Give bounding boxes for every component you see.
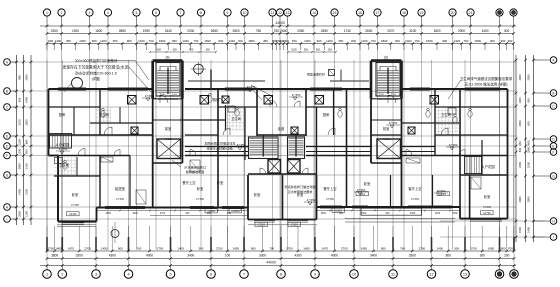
svg-text:C24: C24 <box>441 192 446 196</box>
left dimension chains <box>11 55 33 225</box>
svg-text:1500: 1500 <box>518 227 522 233</box>
svg-text:44000: 44000 <box>266 261 276 265</box>
svg-text:1: 1 <box>46 11 48 15</box>
svg-text:900: 900 <box>316 49 321 52</box>
svg-text:1400: 1400 <box>410 212 416 215</box>
svg-text:47.550: 47.550 <box>145 94 154 98</box>
svg-text:加阳台雨水管做法详见: 加阳台雨水管做法详见 <box>205 141 236 146</box>
svg-text:1400: 1400 <box>55 39 62 43</box>
shaft S2a <box>268 160 281 174</box>
svg-text:C2115: C2115 <box>207 209 215 213</box>
svg-text:防水砂浆封堵C20-600-1.5: 防水砂浆封堵C20-600-1.5 <box>75 71 117 76</box>
elevator E3 <box>377 139 401 159</box>
svg-text:1740: 1740 <box>344 29 351 33</box>
svg-text:1470: 1470 <box>68 246 75 250</box>
svg-text:900: 900 <box>48 39 53 43</box>
svg-text:47.550: 47.550 <box>292 93 301 97</box>
bathroom tile hatch <box>54 105 460 176</box>
right dimension chains <box>515 55 550 242</box>
svg-text:卫生间: 卫生间 <box>231 116 241 121</box>
stair S3 <box>376 63 400 97</box>
svg-text:1450: 1450 <box>488 246 495 250</box>
svg-text:卧室: 卧室 <box>254 192 261 197</box>
svg-text:47.550: 47.550 <box>196 197 204 201</box>
svg-text:900: 900 <box>501 246 506 250</box>
svg-text:1800: 1800 <box>381 39 388 43</box>
svg-text:C2115: C2115 <box>231 209 239 213</box>
svg-text:300: 300 <box>504 29 510 33</box>
svg-text:300: 300 <box>454 246 459 250</box>
svg-text:10: 10 <box>352 273 356 277</box>
svg-text:起居室: 起居室 <box>115 186 126 191</box>
svg-text:1020: 1020 <box>405 39 412 43</box>
svg-text:15: 15 <box>333 11 337 15</box>
svg-text:I: I <box>7 217 8 221</box>
svg-text:1200: 1200 <box>326 39 333 43</box>
svg-text:1400: 1400 <box>177 246 184 250</box>
svg-text:47.550: 47.550 <box>411 197 419 201</box>
svg-text:2900: 2900 <box>518 74 522 80</box>
svg-text:3300: 3300 <box>259 254 266 258</box>
svg-text:450: 450 <box>292 39 297 43</box>
svg-text:1800: 1800 <box>433 29 440 33</box>
svg-text:C2115: C2115 <box>334 209 342 213</box>
svg-text:3400: 3400 <box>370 254 377 258</box>
svg-text:7: 7 <box>243 273 245 277</box>
svg-text:2850: 2850 <box>18 211 22 217</box>
svg-text:3: 3 <box>95 273 97 277</box>
svg-text:10: 10 <box>243 11 247 15</box>
detail circle top-left <box>72 78 83 89</box>
svg-text:900: 900 <box>92 39 97 43</box>
svg-text:1500: 1500 <box>426 39 433 43</box>
svg-text:2900: 2900 <box>458 29 465 33</box>
top grid bubbles <box>43 9 517 16</box>
svg-text:1500: 1500 <box>204 39 211 43</box>
svg-text:卧室: 卧室 <box>197 186 204 191</box>
svg-text:900: 900 <box>218 39 223 43</box>
svg-text:餐厅上空: 餐厅上空 <box>323 186 337 191</box>
svg-text:47.550: 47.550 <box>483 205 491 209</box>
svg-text:900: 900 <box>317 39 322 43</box>
svg-text:8: 8 <box>280 273 282 277</box>
left grid bubbles <box>4 59 11 223</box>
svg-text:2700: 2700 <box>216 246 223 250</box>
bottom grid bubbles <box>43 270 519 279</box>
svg-text:F: F <box>6 154 8 158</box>
svg-text:1400: 1400 <box>303 246 310 250</box>
svg-text:2400: 2400 <box>527 140 531 146</box>
svg-text:47.550: 47.550 <box>164 137 172 141</box>
balcony bands <box>57 208 455 226</box>
svg-text:下18F: 下18F <box>159 93 166 96</box>
svg-text:300: 300 <box>508 39 513 43</box>
svg-text:卧室: 卧室 <box>72 192 79 197</box>
svg-text:1320: 1320 <box>229 39 236 43</box>
window tags <box>67 192 494 227</box>
svg-text:下18F: 下18F <box>378 93 385 96</box>
svg-text:B: B <box>6 89 8 93</box>
svg-text:3150: 3150 <box>25 189 29 195</box>
svg-text:见大样图做法要求: 见大样图做法要求 <box>288 189 313 194</box>
svg-text:47.550: 47.550 <box>326 197 334 201</box>
svg-text:950: 950 <box>25 149 29 154</box>
svg-text:700: 700 <box>371 39 376 43</box>
svg-text:2700: 2700 <box>48 246 55 250</box>
svg-text:1030: 1030 <box>155 49 161 52</box>
svg-text:E: E <box>552 144 554 148</box>
small stair right <box>465 157 482 174</box>
svg-text:管道井检修门做法详图: 管道井检修门做法详图 <box>285 184 316 189</box>
svg-text:1500: 1500 <box>321 212 327 215</box>
wardrobes <box>101 157 481 204</box>
svg-text:800: 800 <box>446 254 452 258</box>
svg-text:2900: 2900 <box>18 163 22 169</box>
svg-text:3150: 3150 <box>18 139 22 145</box>
svg-text:2440: 2440 <box>165 29 172 33</box>
svg-text:卫生间: 卫生间 <box>441 112 451 117</box>
svg-text:1200: 1200 <box>100 39 107 43</box>
svg-text:2100: 2100 <box>25 163 29 169</box>
svg-text:1320: 1320 <box>138 39 145 43</box>
svg-text:950: 950 <box>18 97 22 102</box>
svg-text:980: 980 <box>18 75 22 80</box>
svg-text:1500: 1500 <box>527 162 531 168</box>
small stair left <box>50 134 72 149</box>
svg-text:760: 760 <box>137 246 142 250</box>
svg-text:1920: 1920 <box>72 29 79 33</box>
svg-text:2400: 2400 <box>518 162 522 168</box>
svg-text:4000: 4000 <box>146 254 153 258</box>
svg-text:2700: 2700 <box>341 246 348 250</box>
svg-text:C2115: C2115 <box>69 212 77 216</box>
svg-text:(6): (6) <box>166 56 170 60</box>
svg-text:950: 950 <box>527 98 531 103</box>
svg-text:C24: C24 <box>360 192 365 196</box>
bottom dimension chains <box>40 226 516 270</box>
svg-text:7: 7 <box>180 11 182 15</box>
svg-text:2980: 2980 <box>527 147 531 153</box>
svg-text:2700: 2700 <box>419 246 426 250</box>
stair S2b <box>288 137 305 159</box>
svg-text:3: 3 <box>89 11 91 15</box>
svg-text:1500: 1500 <box>361 212 367 215</box>
svg-text:750: 750 <box>256 29 262 33</box>
svg-text:8: 8 <box>200 11 202 15</box>
svg-text:苏J11-2006 做法选用 (详图): 苏J11-2006 做法选用 (详图) <box>464 81 507 86</box>
svg-text:450: 450 <box>66 39 71 43</box>
svg-text:C2115: C2115 <box>290 223 298 227</box>
svg-text:卧室: 卧室 <box>217 180 224 185</box>
svg-text:14: 14 <box>312 11 316 15</box>
svg-text:2100: 2100 <box>18 119 22 125</box>
svg-text:900: 900 <box>118 246 123 250</box>
svg-text:9: 9 <box>314 273 316 277</box>
svg-text:600: 600 <box>527 121 531 126</box>
svg-text:700: 700 <box>269 246 274 250</box>
svg-text:350: 350 <box>206 49 211 52</box>
annotation blocks <box>62 58 512 194</box>
svg-text:980: 980 <box>25 139 29 144</box>
svg-text:厨房: 厨房 <box>213 97 220 102</box>
inner dimension chain <box>96 210 462 216</box>
detail circle mid <box>194 64 204 74</box>
svg-text:1400: 1400 <box>481 29 488 33</box>
right grid bubbles <box>550 57 557 241</box>
svg-text:1400: 1400 <box>437 246 444 250</box>
door arcs <box>78 95 465 174</box>
svg-text:2640: 2640 <box>280 29 287 33</box>
svg-text:18: 18 <box>402 11 406 15</box>
svg-text:2850: 2850 <box>527 74 531 80</box>
svg-text:1500: 1500 <box>452 212 458 215</box>
svg-text:入户花园: 入户花园 <box>481 164 495 169</box>
svg-text:47.550: 47.550 <box>59 147 68 151</box>
svg-text:47.550: 47.550 <box>389 121 398 125</box>
svg-text:B: B <box>552 91 554 95</box>
svg-text:6: 6 <box>210 273 212 277</box>
svg-text:2700: 2700 <box>157 246 164 250</box>
svg-text:2070: 2070 <box>387 29 394 33</box>
svg-text:4300: 4300 <box>109 254 116 258</box>
svg-text:厨房: 厨房 <box>59 112 66 117</box>
svg-text:2700: 2700 <box>84 246 91 250</box>
svg-text:1400: 1400 <box>55 246 62 250</box>
svg-text:47.550: 47.550 <box>382 137 390 141</box>
svg-text:1300: 1300 <box>304 39 311 43</box>
svg-text:900: 900 <box>251 246 256 250</box>
svg-text:2850: 2850 <box>25 119 29 125</box>
svg-text:300: 300 <box>395 39 400 43</box>
svg-text:4: 4 <box>107 11 109 15</box>
svg-text:47.550: 47.550 <box>116 197 124 201</box>
svg-text:留洞做法见图: 留洞做法见图 <box>186 169 205 174</box>
svg-text:前室: 前室 <box>383 126 390 131</box>
svg-text:1400: 1400 <box>527 227 531 233</box>
svg-text:3300: 3300 <box>409 254 416 258</box>
top dimension chains <box>40 16 516 53</box>
svg-text:1990: 1990 <box>143 29 150 33</box>
svg-text:900: 900 <box>189 49 194 52</box>
svg-text:2700: 2700 <box>470 246 477 250</box>
svg-text:19: 19 <box>420 11 424 15</box>
svg-text:600: 600 <box>386 212 391 215</box>
svg-text:2550: 2550 <box>321 29 328 33</box>
bathroom fixtures <box>55 93 473 169</box>
svg-text:1500: 1500 <box>435 212 441 215</box>
svg-text:5: 5 <box>169 273 171 277</box>
stair S1 <box>156 63 180 97</box>
svg-text:900: 900 <box>442 39 447 43</box>
svg-text:1450: 1450 <box>361 246 368 250</box>
level marks <box>56 85 460 205</box>
svg-text:1800: 1800 <box>248 39 255 43</box>
svg-text:11: 11 <box>271 11 275 15</box>
svg-text:给排水大样图(详图): 给排水大样图(详图) <box>207 145 234 150</box>
svg-text:1: 1 <box>46 273 48 277</box>
svg-text:2: 2 <box>61 273 63 277</box>
svg-text:100: 100 <box>225 254 231 258</box>
detail circle bottom <box>111 230 119 238</box>
svg-text:餐厅上空: 餐厅上空 <box>182 180 196 185</box>
svg-text:走道: 走道 <box>278 126 285 131</box>
svg-text:(6): (6) <box>384 56 388 60</box>
svg-text:2850: 2850 <box>518 120 522 126</box>
shaft S2b <box>288 160 301 174</box>
svg-text:2700: 2700 <box>160 212 166 215</box>
svg-text:1800: 1800 <box>475 39 482 43</box>
svg-text:4000: 4000 <box>331 254 338 258</box>
svg-text:900: 900 <box>186 212 191 215</box>
svg-text:350: 350 <box>338 39 343 43</box>
svg-text:16: 16 <box>358 11 362 15</box>
svg-text:47.550: 47.550 <box>449 143 458 147</box>
svg-text:1800: 1800 <box>95 29 102 33</box>
svg-text:450: 450 <box>263 39 268 43</box>
svg-text:3F水箱间检修口: 3F水箱间检修口 <box>184 165 206 170</box>
svg-text:760: 760 <box>400 246 405 250</box>
svg-text:卧室: 卧室 <box>364 181 371 186</box>
svg-text:2: 2 <box>61 11 63 15</box>
svg-text:客厅上空: 客厅上空 <box>408 186 422 191</box>
svg-text:4: 4 <box>127 273 129 277</box>
svg-text:3100: 3100 <box>409 29 416 33</box>
svg-text:300: 300 <box>198 246 203 250</box>
svg-text:F: F <box>553 150 555 154</box>
svg-text:1200: 1200 <box>25 211 29 217</box>
svg-text:900: 900 <box>501 39 506 43</box>
stair S2a <box>249 137 279 159</box>
svg-text:1450: 1450 <box>101 246 108 250</box>
svg-text:前室: 前室 <box>165 126 172 131</box>
svg-text:700: 700 <box>149 39 154 43</box>
svg-text:47.550: 47.550 <box>357 188 366 192</box>
svg-text:卧室: 卧室 <box>484 194 491 199</box>
svg-text:2900: 2900 <box>25 74 29 80</box>
svg-text:C1720: C1720 <box>483 211 491 215</box>
svg-text:21: 21 <box>469 11 473 15</box>
svg-text:雨篷金属栏杆: 雨篷金属栏杆 <box>307 72 325 77</box>
svg-text:4300: 4300 <box>294 254 301 258</box>
svg-text:2900: 2900 <box>527 196 531 202</box>
svg-text:6: 6 <box>155 11 157 15</box>
svg-text:1400: 1400 <box>282 39 289 43</box>
svg-text:5: 5 <box>136 11 138 15</box>
svg-text:20: 20 <box>451 11 455 15</box>
svg-text:发现存在下沉现象用大于下沉做法(水泥): 发现存在下沉现象用大于下沉做法(水泥) <box>62 64 130 69</box>
svg-text:9: 9 <box>227 11 229 15</box>
horizontal axis lines <box>12 62 545 237</box>
svg-text:750: 750 <box>274 29 280 33</box>
svg-text:200: 200 <box>504 254 510 258</box>
svg-text:厨房: 厨房 <box>323 112 330 117</box>
svg-text:13: 13 <box>463 273 467 277</box>
svg-text:C2115: C2115 <box>257 223 265 227</box>
svg-text:卫生间排气道做法见图集做法要求: 卫生间排气道做法见图集做法要求 <box>460 76 513 81</box>
svg-text:1030: 1030 <box>291 49 297 52</box>
svg-text:300: 300 <box>172 39 177 43</box>
svg-text:E: E <box>6 144 8 148</box>
svg-text:550: 550 <box>173 49 178 52</box>
svg-text:1450: 1450 <box>233 246 240 250</box>
svg-text:450: 450 <box>490 39 495 43</box>
svg-text:900: 900 <box>127 39 132 43</box>
windows <box>58 88 502 225</box>
svg-text:2980: 2980 <box>518 196 522 202</box>
svg-text:2030: 2030 <box>187 29 194 33</box>
svg-text:1400: 1400 <box>518 97 522 103</box>
svg-text:700: 700 <box>415 39 420 43</box>
svg-text:700: 700 <box>464 39 469 43</box>
svg-text:2850: 2850 <box>119 29 126 33</box>
elevator E1 <box>157 139 181 159</box>
door tags <box>128 96 439 135</box>
svg-text:1500: 1500 <box>132 212 138 215</box>
svg-text:44000: 44000 <box>275 21 285 25</box>
svg-text:3800: 3800 <box>51 254 58 258</box>
svg-text:17: 17 <box>376 11 380 15</box>
svg-text:13: 13 <box>286 11 290 15</box>
svg-text:3400: 3400 <box>187 254 194 258</box>
svg-text:1320: 1320 <box>454 39 461 43</box>
svg-text:600: 600 <box>518 147 522 152</box>
svg-text:卫生间: 卫生间 <box>59 162 69 167</box>
svg-text:1320: 1320 <box>361 39 368 43</box>
svg-text:1200: 1200 <box>18 148 22 154</box>
svg-text:2050: 2050 <box>297 29 304 33</box>
svg-text:2650: 2650 <box>211 29 218 33</box>
svg-text:12: 12 <box>429 273 433 277</box>
svg-text:900: 900 <box>351 39 356 43</box>
svg-text:550: 550 <box>304 49 309 52</box>
svg-text:350: 350 <box>328 49 333 52</box>
svg-text:47.550: 47.550 <box>71 203 79 207</box>
svg-text:47.550: 47.550 <box>307 198 316 202</box>
plan walls <box>49 61 508 222</box>
svg-text:300: 300 <box>480 254 486 258</box>
svg-text:(详图): (详图) <box>92 76 101 81</box>
svg-text:12: 12 <box>278 11 282 15</box>
vertical grid lines <box>47 26 514 266</box>
svg-text:900: 900 <box>381 246 386 250</box>
svg-text:1020: 1020 <box>182 39 189 43</box>
svg-text:11: 11 <box>391 273 395 277</box>
svg-text:700: 700 <box>508 246 513 250</box>
svg-text:700: 700 <box>238 39 243 43</box>
svg-text:卫生间: 卫生间 <box>99 112 109 117</box>
svg-text:2700: 2700 <box>286 246 293 250</box>
svg-text:950: 950 <box>518 141 522 146</box>
svg-text:1300: 1300 <box>79 39 86 43</box>
svg-text:1400: 1400 <box>18 189 22 195</box>
svg-text:1470: 1470 <box>322 246 329 250</box>
svg-text:2630: 2630 <box>365 29 372 33</box>
room labels <box>55 97 495 209</box>
svg-text:3300: 3300 <box>76 254 83 258</box>
svg-text:700: 700 <box>193 39 198 43</box>
svg-text:2300: 2300 <box>51 29 58 33</box>
svg-text:1500: 1500 <box>106 212 112 215</box>
svg-text:1400: 1400 <box>25 97 29 103</box>
svg-text:I: I <box>553 235 554 239</box>
svg-text:1800: 1800 <box>159 39 166 43</box>
svg-text:350: 350 <box>113 39 118 43</box>
svg-text:47.550: 47.550 <box>237 143 246 147</box>
svg-text:2800: 2800 <box>232 29 239 33</box>
